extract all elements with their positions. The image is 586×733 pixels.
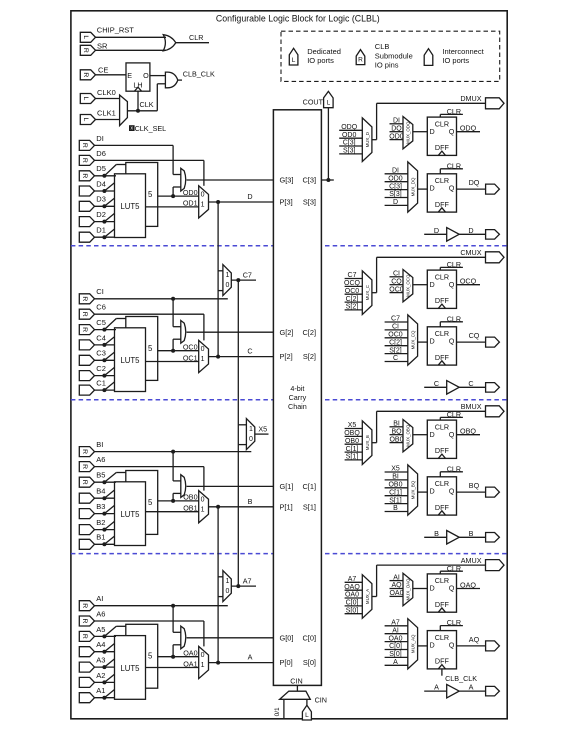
svg-text:LUT5: LUT5	[120, 202, 140, 211]
svg-text:AMUX: AMUX	[461, 556, 482, 565]
svg-text:R: R	[81, 619, 88, 624]
svg-text:S[1]: S[1]	[346, 454, 359, 461]
svg-text:C6: C6	[96, 303, 106, 312]
svg-text:P[0]: P[0]	[280, 658, 293, 667]
svg-text:S[3]: S[3]	[303, 198, 316, 207]
svg-text:R: R	[81, 143, 88, 148]
svg-text:X5: X5	[258, 425, 267, 434]
svg-text:C[0]: C[0]	[346, 600, 359, 607]
svg-text:G[1]: G[1]	[280, 482, 294, 491]
svg-text:D3: D3	[96, 195, 106, 204]
svg-text:CLR: CLR	[447, 260, 461, 269]
svg-text:1: 1	[249, 426, 253, 433]
svg-text:1: 1	[225, 578, 229, 585]
svg-text:Q: Q	[449, 127, 455, 136]
svg-text:A4: A4	[96, 640, 105, 649]
svg-text:LH: LH	[133, 81, 142, 90]
svg-text:A6: A6	[96, 455, 105, 464]
svg-text:R: R	[81, 464, 88, 469]
svg-text:CLR: CLR	[435, 176, 449, 185]
svg-text:P[3]: P[3]	[280, 198, 293, 207]
svg-text:0: 0	[201, 496, 205, 503]
svg-text:DI: DI	[393, 118, 400, 125]
svg-text:S[2]: S[2]	[346, 304, 359, 311]
svg-text:Interconnect: Interconnect	[442, 47, 484, 56]
svg-text:OD0: OD0	[389, 133, 404, 140]
svg-text:C2: C2	[96, 364, 106, 373]
svg-text:A: A	[248, 653, 253, 662]
svg-text:L: L	[82, 97, 89, 101]
svg-text:P[2]: P[2]	[280, 352, 293, 361]
svg-text:LUT5: LUT5	[120, 356, 140, 365]
svg-text:CLR: CLR	[435, 119, 449, 128]
svg-text:A6: A6	[96, 609, 105, 618]
svg-text:A3: A3	[96, 656, 105, 665]
svg-text:OA1: OA1	[183, 659, 197, 668]
svg-text:OC0: OC0	[389, 286, 404, 293]
svg-text:R: R	[82, 72, 89, 77]
svg-text:C[1]: C[1]	[389, 489, 402, 496]
svg-text:C[3]: C[3]	[302, 176, 316, 185]
svg-text:Q: Q	[449, 337, 455, 346]
svg-text:OB1: OB1	[183, 504, 197, 513]
svg-text:0: 0	[225, 588, 229, 595]
svg-text:Q: Q	[449, 584, 455, 593]
svg-text:CLR: CLR	[435, 479, 449, 488]
svg-text:0/1: 0/1	[274, 707, 281, 716]
svg-text:OA0: OA0	[183, 649, 197, 658]
svg-text:S[0]: S[0]	[389, 651, 402, 658]
svg-text:G[2]: G[2]	[280, 328, 294, 337]
svg-text:A7: A7	[243, 577, 252, 586]
svg-text:OCQ: OCQ	[460, 277, 477, 286]
svg-text:X5: X5	[348, 422, 357, 429]
svg-text:C[2]: C[2]	[389, 339, 402, 346]
svg-text:C[1]: C[1]	[302, 482, 316, 491]
svg-text:B5: B5	[96, 471, 105, 480]
svg-text:MUX_BQ: MUX_BQ	[410, 480, 415, 499]
svg-text:AI: AI	[393, 574, 400, 581]
svg-text:LUT5: LUT5	[120, 510, 140, 519]
svg-text:MUX_OAQ: MUX_OAQ	[406, 578, 411, 601]
svg-text:C[2]: C[2]	[302, 328, 316, 337]
svg-text:L: L	[292, 57, 296, 64]
svg-text:OD0: OD0	[388, 175, 403, 182]
svg-text:Dedicated: Dedicated	[307, 47, 341, 56]
svg-text:OA0: OA0	[388, 635, 402, 642]
svg-text:D: D	[430, 337, 435, 346]
svg-text:DMUX: DMUX	[460, 94, 481, 103]
svg-text:CLK0: CLK0	[97, 88, 116, 97]
svg-text:C[0]: C[0]	[302, 633, 316, 642]
svg-text:5: 5	[148, 344, 153, 353]
svg-text:R: R	[81, 312, 88, 317]
svg-text:S[3]: S[3]	[343, 148, 356, 155]
svg-text:Q: Q	[449, 280, 455, 289]
svg-text:R: R	[81, 480, 88, 485]
svg-text:CLR: CLR	[435, 633, 449, 642]
svg-text:CLR: CLR	[435, 329, 449, 338]
svg-text:R: R	[81, 296, 88, 301]
svg-text:5: 5	[148, 190, 153, 199]
svg-text:C7: C7	[243, 271, 252, 280]
svg-text:C7: C7	[391, 316, 400, 323]
svg-text:5: 5	[148, 498, 153, 507]
svg-text:SR: SR	[97, 42, 108, 51]
svg-text:OB0: OB0	[345, 438, 359, 445]
svg-text:CQ: CQ	[469, 331, 480, 340]
svg-text:S[1]: S[1]	[303, 502, 316, 511]
svg-text:A7: A7	[348, 576, 357, 583]
svg-text:OC0: OC0	[345, 288, 360, 295]
svg-text:D: D	[430, 584, 435, 593]
svg-text:B: B	[393, 505, 398, 512]
svg-text:A1: A1	[96, 686, 105, 695]
svg-text:C7: C7	[348, 272, 357, 279]
svg-text:OBQ: OBQ	[460, 427, 476, 436]
svg-text:MUX_DQ: MUX_DQ	[410, 177, 415, 196]
svg-text:Q: Q	[449, 430, 455, 439]
svg-text:BMUX: BMUX	[461, 402, 482, 411]
svg-text:OA0: OA0	[345, 592, 359, 599]
svg-text:CLK: CLK	[140, 100, 154, 109]
svg-text:A: A	[434, 683, 439, 692]
svg-text:CLR: CLR	[447, 618, 461, 627]
svg-text:CLR: CLR	[447, 107, 461, 116]
svg-text:B: B	[469, 529, 474, 538]
svg-text:D4: D4	[96, 179, 106, 188]
svg-text:C: C	[393, 355, 398, 362]
svg-text:D: D	[393, 199, 398, 206]
svg-text:DI: DI	[96, 134, 104, 143]
svg-text:OB0: OB0	[388, 482, 402, 489]
svg-text:AI: AI	[392, 627, 399, 634]
svg-text:OAQ: OAQ	[344, 584, 360, 591]
svg-text:G[3]: G[3]	[280, 176, 294, 185]
svg-text:MUX_C: MUX_C	[365, 285, 370, 300]
svg-text:E: E	[127, 71, 132, 80]
svg-text:CI: CI	[393, 271, 400, 278]
svg-text:D: D	[434, 226, 439, 235]
svg-text:B: B	[248, 497, 253, 506]
svg-text:C: C	[468, 379, 473, 388]
svg-text:C1: C1	[96, 379, 106, 388]
svg-text:OC0: OC0	[388, 332, 403, 339]
svg-text:0: 0	[201, 192, 205, 199]
svg-text:4-bit: 4-bit	[290, 384, 304, 393]
svg-text:C[3]: C[3]	[343, 140, 356, 147]
svg-text:MUX_B: MUX_B	[365, 435, 370, 450]
svg-text:D: D	[430, 184, 435, 193]
svg-text:P[1]: P[1]	[280, 502, 293, 511]
svg-text:D: D	[430, 640, 435, 649]
svg-text:BI: BI	[96, 440, 103, 449]
svg-text:B3: B3	[96, 502, 105, 511]
svg-text:D5: D5	[96, 164, 106, 173]
svg-text:AQ: AQ	[391, 582, 402, 589]
svg-text:C5: C5	[96, 318, 106, 327]
svg-text:D6: D6	[96, 149, 106, 158]
svg-text:R: R	[81, 603, 88, 608]
svg-text:DI: DI	[392, 168, 399, 175]
svg-text:D: D	[468, 226, 473, 235]
svg-text:CI: CI	[392, 324, 399, 331]
svg-text:L: L	[82, 35, 89, 39]
svg-text:OBQ: OBQ	[344, 430, 360, 437]
svg-text:R: R	[81, 634, 88, 639]
svg-text:B4: B4	[96, 487, 105, 496]
svg-text:D: D	[430, 487, 435, 496]
svg-text:CLB: CLB	[375, 42, 390, 51]
svg-text:AI: AI	[96, 594, 103, 603]
svg-text:O: O	[143, 71, 149, 80]
svg-text:S[3]: S[3]	[389, 191, 402, 198]
svg-text:CI: CI	[96, 287, 104, 296]
svg-text:OC1: OC1	[183, 353, 198, 362]
svg-text:C: C	[247, 347, 252, 356]
svg-text:1: 1	[201, 662, 205, 669]
svg-text:S[1]: S[1]	[389, 497, 402, 504]
svg-text:B: B	[434, 529, 439, 538]
svg-text:CMUX: CMUX	[460, 248, 481, 257]
svg-text:D: D	[430, 127, 435, 136]
svg-text:G[0]: G[0]	[280, 633, 294, 642]
svg-text:DQ: DQ	[391, 125, 402, 132]
svg-text:CQ: CQ	[391, 278, 402, 285]
svg-text:OB0: OB0	[389, 436, 403, 443]
svg-text:CLK1: CLK1	[97, 108, 116, 117]
svg-text:IO pins: IO pins	[375, 61, 399, 70]
svg-text:Q: Q	[449, 487, 455, 496]
svg-text:MUX_CQ: MUX_CQ	[410, 330, 415, 349]
svg-text:ODQ: ODQ	[460, 124, 477, 133]
svg-text:CLR: CLR	[435, 272, 449, 281]
svg-text:D1: D1	[96, 226, 106, 235]
svg-text:LUT5: LUT5	[120, 664, 140, 673]
svg-text:S[2]: S[2]	[389, 347, 402, 354]
svg-text:S[0]: S[0]	[303, 658, 316, 667]
svg-text:C[0]: C[0]	[389, 643, 402, 650]
svg-text:A: A	[393, 659, 398, 666]
svg-text:Configurable Logic Block for L: Configurable Logic Block for Logic (CLBL…	[216, 14, 380, 24]
svg-text:OD1: OD1	[183, 199, 198, 208]
svg-text:R: R	[81, 173, 88, 178]
svg-text:Submodule: Submodule	[375, 52, 413, 61]
svg-text:L: L	[305, 712, 309, 719]
svg-text:0: 0	[201, 652, 205, 659]
svg-text:BI: BI	[393, 421, 400, 428]
svg-text:B2: B2	[96, 518, 105, 527]
svg-text:MUX_AQ: MUX_AQ	[410, 634, 415, 653]
svg-text:C3: C3	[96, 349, 106, 358]
svg-text:ODQ: ODQ	[341, 124, 358, 131]
svg-text:R: R	[81, 327, 88, 332]
svg-text:OCQ: OCQ	[344, 280, 361, 287]
svg-text:BQ: BQ	[469, 481, 480, 490]
svg-text:OB0: OB0	[183, 493, 197, 502]
svg-text:MUX_A: MUX_A	[365, 589, 370, 604]
svg-text:Q: Q	[449, 184, 455, 193]
svg-text:1: 1	[201, 202, 205, 209]
svg-text:C[1]: C[1]	[346, 446, 359, 453]
svg-text:OA0: OA0	[389, 590, 403, 597]
svg-text:S[0]: S[0]	[346, 607, 359, 614]
svg-text:C: C	[434, 379, 439, 388]
svg-text:B1: B1	[96, 533, 105, 542]
svg-text:MUX_OCQ: MUX_OCQ	[406, 274, 411, 297]
svg-text:IO ports: IO ports	[307, 56, 334, 65]
svg-text:CLR: CLR	[447, 314, 461, 323]
svg-text:L: L	[327, 100, 331, 107]
svg-text:1: 1	[201, 506, 205, 513]
svg-text:CIN: CIN	[290, 677, 302, 686]
svg-text:C4: C4	[96, 333, 106, 342]
svg-text:CLR: CLR	[447, 410, 461, 419]
svg-text:0: 0	[225, 282, 229, 289]
svg-text:OD0: OD0	[342, 132, 357, 139]
svg-text:0: 0	[249, 436, 253, 443]
svg-text:1: 1	[225, 272, 229, 279]
svg-text:IO ports: IO ports	[442, 56, 469, 65]
svg-text:OD0: OD0	[183, 188, 198, 197]
svg-text:OC0: OC0	[183, 343, 198, 352]
svg-text:CLB_CLK: CLB_CLK	[183, 70, 215, 79]
svg-text:A2: A2	[96, 671, 105, 680]
svg-text:X5: X5	[391, 466, 400, 473]
svg-text:CLR: CLR	[447, 564, 461, 573]
svg-text:CLR: CLR	[447, 161, 461, 170]
svg-text:CLR: CLR	[435, 422, 449, 431]
svg-text:1: 1	[201, 356, 205, 363]
svg-text:CIN: CIN	[315, 696, 327, 705]
svg-text:D: D	[430, 280, 435, 289]
svg-text:D: D	[247, 192, 252, 201]
svg-text:MUX_D: MUX_D	[365, 132, 370, 147]
svg-text:MUX_OBQ: MUX_OBQ	[406, 424, 411, 447]
svg-text:0: 0	[201, 346, 205, 353]
svg-text:5: 5	[148, 652, 153, 661]
svg-text:CLR: CLR	[447, 464, 461, 473]
svg-text:D2: D2	[96, 210, 106, 219]
svg-text:A5: A5	[96, 625, 105, 634]
svg-text:A7: A7	[391, 620, 400, 627]
svg-text:Carry: Carry	[289, 393, 307, 402]
svg-text:Chain: Chain	[288, 402, 307, 411]
svg-text:C[3]: C[3]	[389, 183, 402, 190]
svg-text:D: D	[430, 430, 435, 439]
svg-text:CLK_SEL: CLK_SEL	[135, 124, 167, 133]
svg-text:C[2]: C[2]	[346, 296, 359, 303]
svg-text:CE: CE	[98, 65, 108, 74]
svg-text:OAQ: OAQ	[460, 581, 476, 590]
svg-text:S[2]: S[2]	[303, 352, 316, 361]
svg-text:MUX_ODQ: MUX_ODQ	[406, 121, 411, 144]
svg-text:R: R	[81, 158, 88, 163]
svg-text:BQ: BQ	[391, 428, 402, 435]
svg-text:R: R	[81, 449, 88, 454]
svg-text:CLB_CLK: CLB_CLK	[445, 674, 477, 683]
svg-text:CLR: CLR	[189, 33, 203, 42]
svg-text:L: L	[82, 118, 89, 122]
svg-text:CLR: CLR	[435, 576, 449, 585]
svg-text:COUT: COUT	[303, 97, 324, 106]
svg-text:Q: Q	[449, 640, 455, 649]
svg-text:R: R	[358, 56, 363, 63]
svg-text:CHIP_RST: CHIP_RST	[97, 26, 135, 35]
svg-text:AQ: AQ	[469, 635, 480, 644]
svg-text:BI: BI	[392, 474, 399, 481]
svg-text:DQ: DQ	[469, 178, 480, 187]
svg-text:R: R	[82, 48, 89, 53]
svg-text:A: A	[469, 683, 474, 692]
